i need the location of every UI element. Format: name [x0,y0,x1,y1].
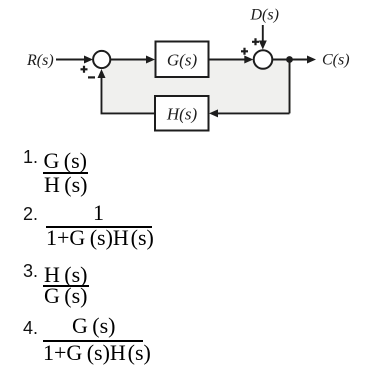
option 1 number [23,148,38,166]
svg-text:H(s): H(s) [166,105,198,124]
option 3 number [23,262,38,280]
wire H(s) output back to S1 [98,69,156,113]
minus sign at S1 feedback input [88,76,95,78]
svg-text:G(s): G(s) [167,51,198,70]
svg-text:D(s): D(s) [250,7,279,24]
option 4 fraction G(s)/(1+G(s)H(s)) [72,315,116,337]
block diagram [0,0,385,142]
option 3 fraction H(s)/G(s) [44,264,88,286]
wire S2 to output C(s) [272,56,316,64]
option 1 fraction G(s)/H(s) [44,150,88,172]
takeoff node on output [286,56,293,63]
summing junction S1 [93,51,110,68]
block H(s) [155,96,209,131]
plus sign at D(s) input [252,38,259,45]
scan tint inside feedback loop [103,60,291,113]
option 2 fraction 1/(1+G(s)H(s)) [93,202,104,224]
option 4 number [23,319,38,337]
svg-text:R(s): R(s) [26,52,54,69]
wire feedback to H(s) input [209,109,290,117]
wire G(s) to summing junction S2 [209,56,254,64]
plus sign at S2 forward input [241,48,248,55]
plus sign at S1 reference input [81,66,88,73]
svg-text:C(s): C(s) [322,52,350,69]
wire R(s) to summing junction S1 [56,56,93,64]
wire S1 to block G(s) [110,56,155,64]
wire D(s) into S2 [259,25,267,50]
wire takeoff node down [289,60,291,114]
summing junction S2 [254,50,273,69]
option 2 number [23,205,38,223]
block G(s) [156,42,209,78]
